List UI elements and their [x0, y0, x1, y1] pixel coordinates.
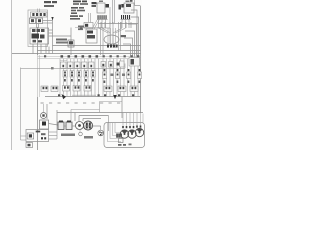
junction switch bottom — [40, 104, 59, 129]
wire long cross line upper — [75, 27, 103, 29]
text under — [61, 134, 75, 137]
nested coil loop 3 — [113, 123, 117, 136]
bottom center components — [58, 121, 103, 139]
dashed cut line — [41, 102, 121, 104]
paper background — [0, 0, 150, 150]
wire drops from bus to motors — [123, 113, 143, 126]
marks above A — [99, 1, 103, 3]
wire parallel bus segment — [72, 94, 96, 96]
wire bundle diagonals — [92, 19, 126, 33]
arrow junction on feed wire — [51, 17, 53, 20]
ticks inside row 2 — [64, 69, 140, 76]
motor circle dark — [84, 121, 93, 130]
wires between and below units — [99, 0, 135, 28]
outer case — [104, 123, 145, 148]
wire staircase right 3 — [128, 24, 137, 60]
wires down from top blocks — [100, 22, 102, 28]
wire bus A — [53, 45, 141, 47]
wire staircase right 4 — [125, 31, 135, 60]
body A — [97, 3, 105, 13]
junction arrow pointer on bus — [62, 94, 67, 99]
second component row — [41, 86, 138, 92]
wire corner frame right — [71, 102, 122, 122]
small comp below block — [26, 143, 33, 148]
junction arrow right — [113, 95, 116, 99]
nested coil loop 2 — [110, 123, 118, 139]
wires right of clock block — [49, 126, 58, 139]
marks row under switches — [64, 79, 140, 83]
nested coil loop 1 — [108, 123, 122, 142]
marks above B — [126, 1, 130, 3]
wires from heading into enclosure — [38, 9, 40, 13]
ticks inside row 1 — [62, 59, 134, 67]
surface unit switch A — [92, 1, 110, 20]
label small mid right — [121, 35, 127, 37]
fuse component — [68, 28, 74, 56]
connecting wire — [64, 125, 66, 127]
nested corner wires above bottom components — [47, 104, 101, 126]
cluster bottom labels — [118, 144, 122, 146]
wire main left vertical — [37, 27, 39, 55]
scan area tint — [12, 0, 142, 150]
wire vertical to bottom right cluster — [121, 97, 123, 118]
clock/timer block bottom left — [26, 130, 49, 148]
label small mid left — [56, 39, 67, 41]
buzzer circle — [76, 122, 84, 130]
label small above fuse — [78, 26, 84, 28]
wire band double bus — [38, 57, 141, 61]
oven relay box mid center — [86, 28, 119, 55]
wire bus D lower — [45, 96, 141, 98]
blob right of A — [106, 4, 110, 8]
motor M3 — [135, 128, 143, 136]
wire bus B — [38, 50, 141, 52]
terminal dots above motors — [122, 126, 141, 129]
wire vertical drops through band — [60, 59, 138, 97]
motor M1 — [120, 130, 128, 138]
cable bundle grommet — [104, 35, 119, 44]
label text A — [92, 2, 97, 4]
wire staircase right 6 — [123, 44, 131, 57]
wire second left vertical — [39, 55, 41, 97]
wire bottom bus 1 — [57, 112, 143, 114]
connector symbol — [98, 130, 104, 136]
wire bus C — [12, 53, 141, 55]
wire staircase right 1 — [135, 5, 141, 7]
small relay near notes — [84, 13, 93, 28]
switch pair upper left — [30, 18, 53, 54]
tick on upper cross line — [80, 26, 83, 29]
motor M2 — [128, 130, 136, 138]
left scan edge line — [11, 0, 13, 150]
switch boxes row 2 — [63, 71, 142, 79]
wire top cross line — [98, 23, 138, 25]
terminal ticks B — [121, 15, 130, 19]
body B — [124, 3, 134, 13]
terminal block dark squares — [116, 134, 118, 138]
label cluster B — [119, 5, 122, 10]
oven enclosure big box — [21, 64, 126, 141]
small switch box in cluster — [118, 139, 123, 143]
pins of second component row — [43, 86, 137, 89]
wire bottom bus 2 — [79, 115, 109, 117]
wire right edge bus — [140, 6, 142, 113]
oven console enclosure — [28, 10, 48, 47]
wire staircase right 5 — [124, 38, 133, 57]
terminal ticks A — [98, 15, 107, 19]
oven control cluster mid left — [30, 24, 71, 54]
wire staircase right 2 — [131, 17, 139, 60]
coil marks between switches — [111, 74, 126, 77]
wire pair mid right — [119, 22, 121, 51]
nested coil loop 4 — [115, 123, 120, 133]
bottom right cluster: blower assembly — [104, 113, 145, 148]
wire drop into cluster — [108, 116, 110, 132]
wire verticals below top blocks — [110, 22, 113, 46]
surface switch boxes row 1 — [61, 58, 140, 69]
wire labels on band bus — [44, 55, 139, 57]
tick on enclosure line — [51, 67, 54, 69]
terminal strip upper left — [31, 12, 48, 17]
text block top middle (notes) — [70, 1, 88, 20]
labels on lower bus — [58, 94, 134, 96]
surface unit switch B — [119, 0, 135, 19]
text block top left — [44, 1, 57, 7]
